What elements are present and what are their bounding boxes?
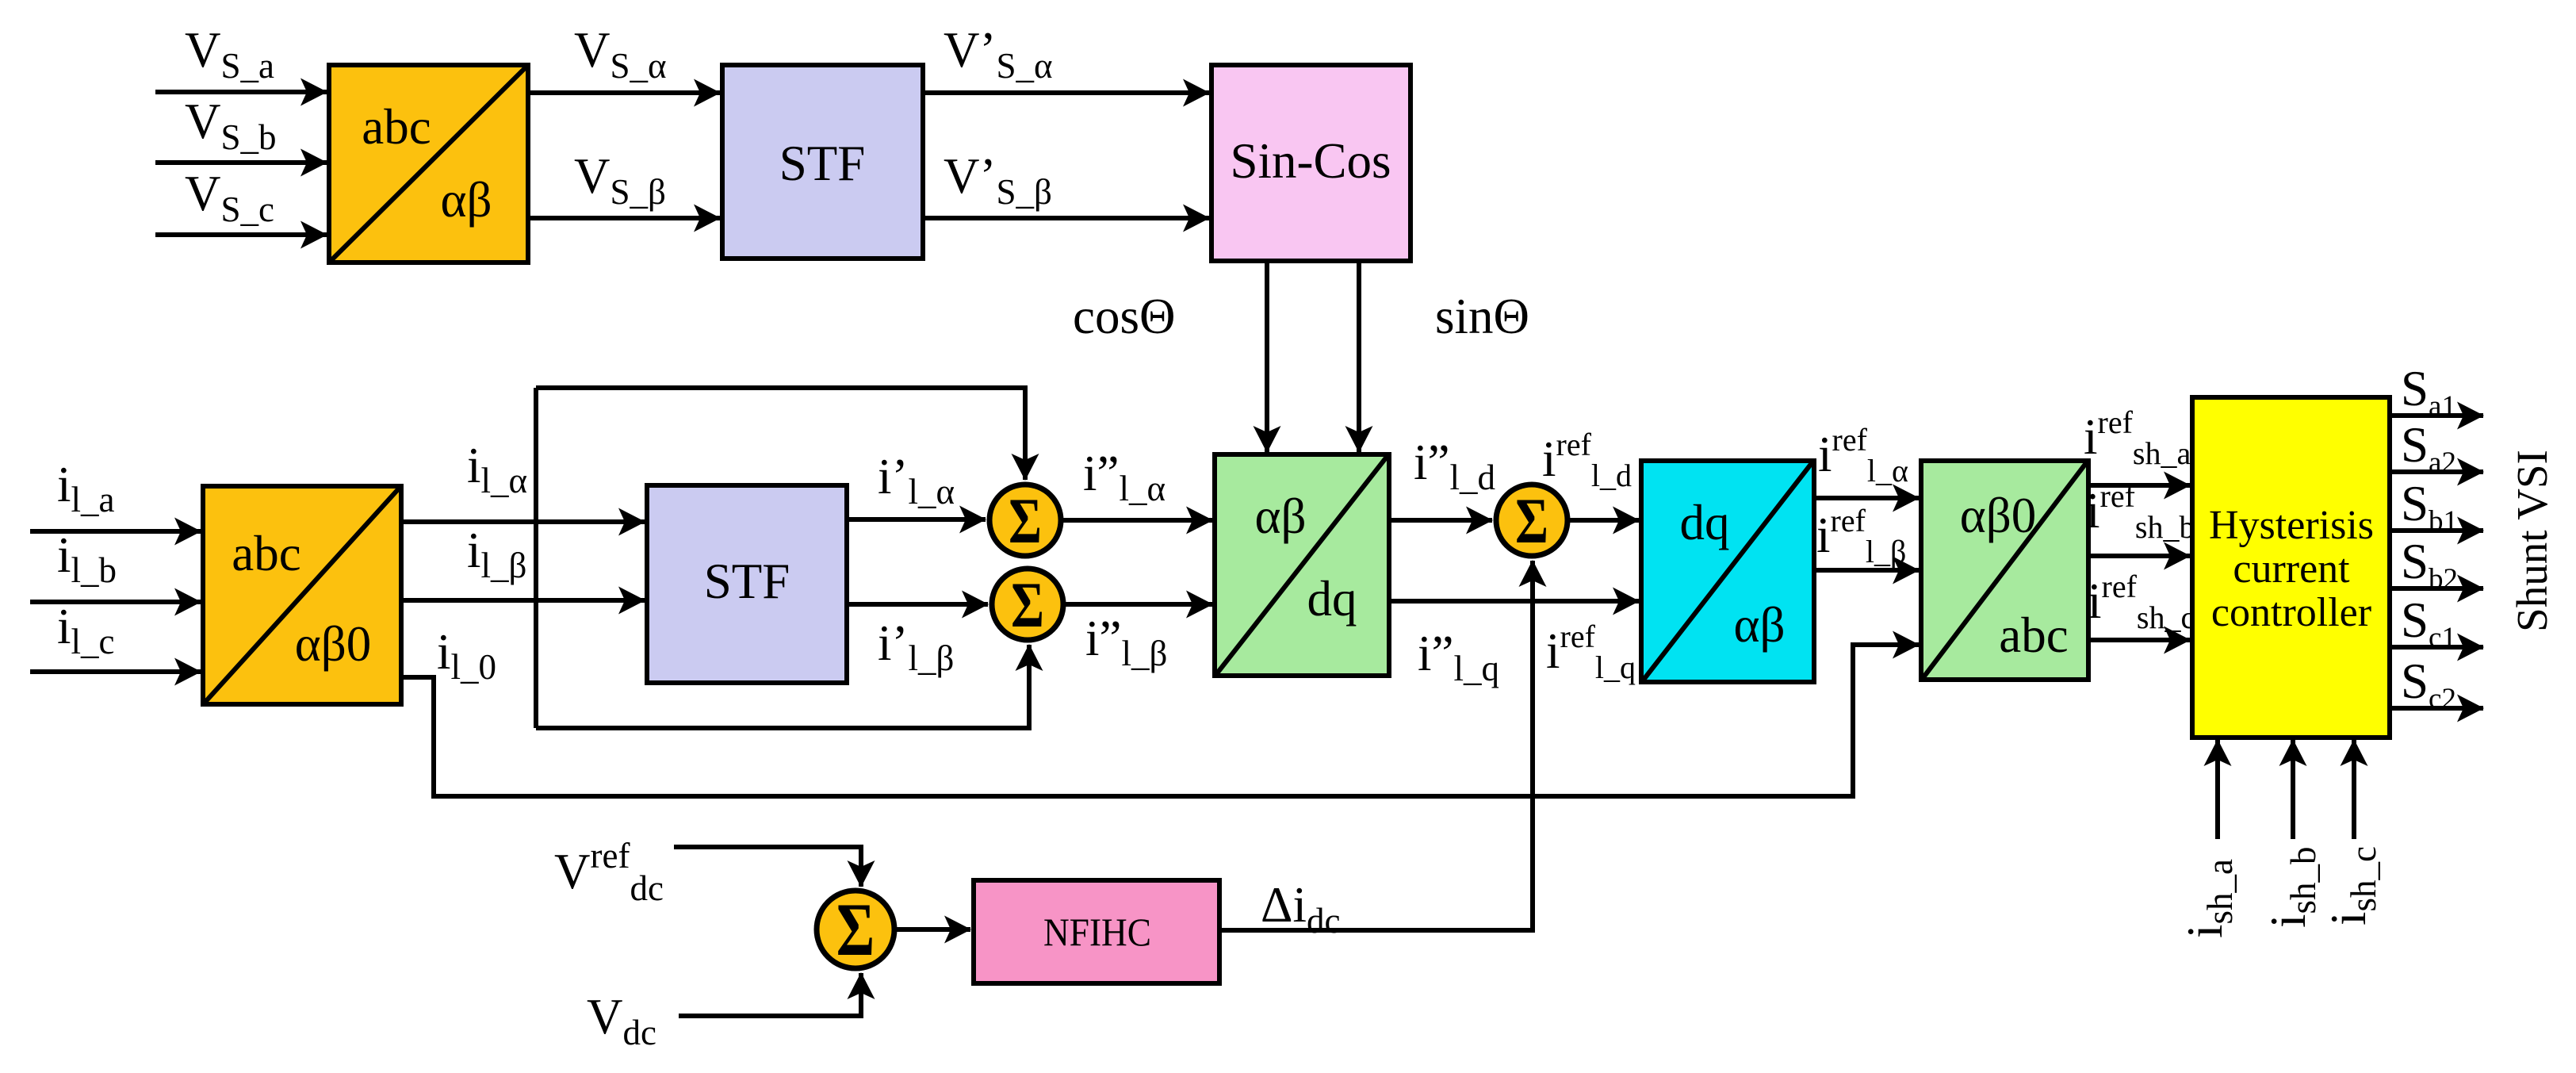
svg-text:dq: dq: [1680, 495, 1730, 550]
wire Sb1 output: [2390, 528, 2483, 533]
wire V's_alpha: [923, 90, 1209, 95]
wire Vs_a input: [155, 90, 327, 94]
block B10 NFIHC: [974, 880, 1219, 983]
block B8 alpha-beta-0/abc: [1921, 461, 2088, 680]
wire delta-i-dc feedback up to S3: [1220, 561, 1533, 930]
wire cos-theta down: [1265, 261, 1269, 452]
block B3 Sin-Cos: [1211, 65, 1410, 261]
wire i''l_q B6 to B7: [1389, 599, 1639, 604]
summing junction S4: [817, 888, 894, 971]
wire il_c input: [30, 669, 201, 674]
wire i''l_d B6 to S3: [1389, 518, 1492, 523]
summing junction S2: [992, 568, 1063, 640]
wire il_beta to STF: [401, 598, 645, 603]
svg-text:Σ: Σ: [836, 888, 875, 971]
svg-text:Σ: Σ: [1515, 484, 1548, 556]
svg-text:αβ0: αβ0: [295, 616, 372, 672]
svg-text:Sin-Cos: Sin-Cos: [1230, 133, 1391, 189]
wire il_b input: [30, 600, 201, 604]
svg-text:αβ: αβ: [440, 172, 492, 228]
svg-text:Σ: Σ: [1009, 484, 1042, 556]
wire Sa1 output: [2390, 413, 2483, 418]
wire i''l_alpha S1 to B6: [1063, 518, 1212, 523]
wire il_0 long feedback: [401, 645, 1919, 796]
wire il_alpha to STF: [401, 519, 645, 524]
svg-text:αβ: αβ: [1254, 489, 1306, 544]
svg-text:STF: STF: [704, 554, 790, 609]
wire i'l_beta to S2: [847, 602, 988, 607]
wire iref_sh_b B8 to B9: [2088, 554, 2190, 558]
wire S4 to NFIHC: [896, 927, 970, 932]
wire bypass top to S1: [536, 388, 1025, 480]
svg-text:Shunt VSI: Shunt VSI: [2508, 450, 2556, 632]
wire Vs_alpha: [528, 90, 720, 95]
svg-text:αβ0: αβ0: [1960, 488, 2037, 543]
wire i'l_alpha to S1: [847, 517, 986, 522]
wire sin-theta down: [1357, 261, 1361, 452]
wire Vs_c input: [155, 232, 327, 237]
svg-text:αβ: αβ: [1733, 597, 1785, 653]
wire Vs_b input: [155, 160, 327, 165]
svg-text:sinΘ: sinΘ: [1435, 289, 1529, 344]
svg-text:abc: abc: [362, 99, 431, 155]
svg-text:Hysterisis: Hysterisis: [2209, 503, 2374, 548]
wire iref_l_beta B7 to B8: [1814, 568, 1919, 573]
svg-text:STF: STF: [779, 136, 866, 191]
svg-text:NFIHC: NFIHC: [1043, 910, 1151, 954]
wire ish_c input: [2352, 740, 2356, 839]
svg-text:controller: controller: [2211, 590, 2371, 635]
block B4 abc/alpha-beta-0 (load currents): [203, 486, 401, 704]
wire ish_b input: [2291, 740, 2295, 839]
wire iref_sh_a B8 to B9: [2088, 483, 2190, 488]
block B7 dq/alpha-beta: [1641, 461, 1814, 682]
wire bypass bottom to S2: [536, 645, 1029, 728]
wire Vs_beta: [528, 216, 720, 220]
wire Vref_dc to S4: [674, 847, 861, 887]
wire Sa2 output: [2390, 469, 2483, 474]
wire ish_a input: [2215, 740, 2220, 839]
wire V's_beta: [923, 216, 1209, 220]
wire bypass vertical: [534, 388, 538, 728]
block B6 alpha-beta/dq: [1215, 454, 1389, 676]
block B1 abc/alpha-beta (source voltages): [329, 65, 528, 263]
wire iref_sh_c B8 to B9: [2088, 638, 2190, 642]
wire Sc1 output: [2390, 645, 2483, 650]
svg-text:cosΘ: cosΘ: [1073, 289, 1175, 344]
summing junction S1: [989, 484, 1061, 556]
wire i''l_beta S2 to B6: [1066, 602, 1212, 607]
wire Sc2 output: [2390, 706, 2483, 711]
wire Vdc to S4: [679, 973, 861, 1016]
block B5 STF (current filter): [647, 485, 847, 683]
block B2 STF (voltage filter): [722, 65, 923, 259]
svg-text:dq: dq: [1307, 571, 1357, 627]
wire il_a input: [30, 529, 201, 534]
wire iref_l_d S3 to B7: [1570, 518, 1639, 523]
wire Sb2 output: [2390, 586, 2483, 591]
svg-text:abc: abc: [232, 526, 300, 581]
svg-text:Σ: Σ: [1011, 568, 1044, 640]
svg-text:abc: abc: [1999, 607, 2068, 663]
svg-text:current: current: [2233, 546, 2350, 592]
wire iref_l_alpha B7 to B8: [1814, 496, 1919, 500]
block B9 Hysterisis current controller: [2192, 397, 2390, 738]
summing junction S3: [1496, 484, 1567, 556]
